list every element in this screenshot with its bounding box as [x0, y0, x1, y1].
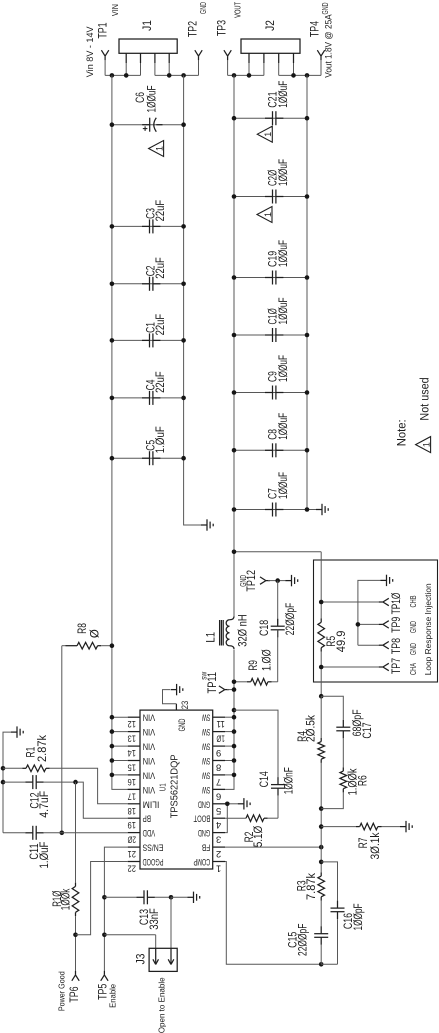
- svg-text:GND: GND: [320, 3, 330, 15]
- svg-text:22uF: 22uF: [155, 314, 167, 336]
- wire output GND rail: [307, 75, 316, 509]
- svg-text:VIN: VIN: [143, 712, 156, 723]
- capacitor C15: [320, 901, 322, 927]
- wire J2 GND side: [279, 74, 321, 76]
- svg-text:R6: R6: [358, 775, 370, 786]
- svg-text:22uF: 22uF: [155, 371, 167, 393]
- capacitor C3: [112, 225, 184, 227]
- wire R8 to VDD: [61, 646, 63, 833]
- svg-text:VIN: VIN: [143, 726, 156, 737]
- svg-text:7.87k: 7.87k: [306, 873, 318, 900]
- svg-text:Vin 8V - 14V: Vin 8V - 14V: [85, 26, 95, 77]
- svg-text:22uF: 22uF: [155, 257, 167, 279]
- capacitor C11: [3, 832, 25, 834]
- svg-text:12: 12: [128, 718, 136, 729]
- test point TP12: [260, 577, 266, 581]
- resistor R6: [342, 767, 344, 771]
- svg-text:U1: U1: [158, 783, 168, 791]
- svg-text:Note:: Note:: [397, 419, 409, 446]
- svg-text:17: 17: [128, 790, 136, 801]
- svg-text:VIN: VIN: [143, 741, 156, 752]
- svg-text:R9: R9: [248, 660, 260, 671]
- capacitor C17 branch: [321, 696, 343, 720]
- ground output rail: [316, 509, 322, 511]
- warning triangle 1 below C21: [257, 126, 272, 142]
- svg-text:BOOT: BOOT: [193, 813, 210, 824]
- wire J1 VIN side: [105, 74, 140, 76]
- svg-text:1: 1: [263, 132, 273, 137]
- capacitor C10: [234, 334, 307, 336]
- svg-text:1ØØuF: 1ØØuF: [146, 86, 158, 113]
- svg-text:2Ø.5k: 2Ø.5k: [306, 715, 318, 742]
- svg-text:49.9: 49.9: [336, 631, 348, 653]
- svg-text:VIN: VIN: [143, 755, 156, 766]
- svg-text:TP2: TP2: [188, 21, 200, 37]
- wire SW node: [213, 650, 234, 790]
- svg-text:Not used: Not used: [419, 377, 431, 420]
- wire VOUT rail: [233, 75, 235, 616]
- svg-text:TP3: TP3: [217, 20, 229, 36]
- svg-text:22ØØpF: 22ØØpF: [285, 603, 297, 635]
- svg-text:GND: GND: [238, 575, 248, 587]
- svg-text:6: 6: [216, 790, 221, 801]
- svg-text:CHA: CHA: [408, 663, 418, 675]
- svg-text:J3: J3: [136, 954, 148, 965]
- svg-text:1ØØuF: 1ØØuF: [278, 472, 290, 499]
- svg-text:1ØØuF: 1ØØuF: [278, 298, 290, 325]
- resistor R5: [320, 619, 322, 623]
- svg-text:R7: R7: [358, 838, 370, 849]
- test point TP3: [224, 50, 228, 56]
- wire loop gnd: [358, 580, 381, 645]
- svg-text:1: 1: [216, 863, 221, 874]
- svg-text:15: 15: [128, 762, 136, 773]
- connector J3: [104, 934, 155, 936]
- svg-text:21: 21: [128, 848, 136, 859]
- capacitor C6: [112, 124, 184, 126]
- svg-text:3Ø.1k: 3Ø.1k: [370, 832, 382, 859]
- capacitor C13: [104, 896, 136, 898]
- svg-text:C18: C18: [259, 620, 271, 636]
- capacitor C20: [234, 196, 307, 198]
- svg-text:TP9: TP9: [391, 617, 403, 633]
- svg-text:BP: BP: [143, 813, 151, 824]
- svg-text:TP1: TP1: [98, 22, 110, 38]
- svg-text:GND: GND: [198, 827, 211, 838]
- test point TP2: [195, 50, 199, 56]
- svg-text:GND: GND: [408, 643, 418, 655]
- wire loop injection feed: [320, 552, 322, 619]
- svg-text:TP6: TP6: [69, 986, 81, 1002]
- test point TP5: [101, 975, 105, 981]
- svg-text:TPS56221DQP: TPS56221DQP: [170, 754, 181, 818]
- svg-text:PGOOD: PGOOD: [142, 856, 163, 867]
- svg-text:COMP: COMP: [194, 856, 211, 867]
- svg-text:GND: GND: [198, 2, 208, 14]
- capacitor C4: [112, 397, 184, 399]
- svg-text:J2: J2: [265, 20, 277, 31]
- resistor R4: [320, 738, 322, 742]
- svg-text:C14: C14: [259, 771, 271, 788]
- warning triangle 1 below C20: [257, 207, 272, 223]
- loop response injection box: [314, 560, 438, 682]
- svg-text:1.ØuF: 1.ØuF: [155, 426, 167, 453]
- svg-text:1ØØuF: 1ØØuF: [278, 159, 290, 186]
- resistor R7: [321, 826, 356, 828]
- svg-text:7: 7: [216, 776, 221, 787]
- svg-text:SW: SW: [202, 726, 210, 737]
- svg-text:ILIM: ILIM: [143, 798, 160, 809]
- svg-text:33nF: 33nF: [149, 908, 161, 930]
- svg-text:VIN: VIN: [110, 4, 120, 16]
- svg-text:23: 23: [180, 701, 190, 710]
- wires U1 VIN pins to rail: [112, 716, 128, 718]
- capacitor C19: [234, 277, 307, 279]
- svg-text:Power Good: Power Good: [56, 971, 66, 1011]
- svg-text:L1: L1: [206, 632, 218, 643]
- wire FB: [225, 846, 321, 848]
- svg-text:Loop Response Injection: Loop Response Injection: [423, 583, 433, 675]
- capacitor C21: [234, 117, 307, 119]
- op-amp U1 TPS56221DQP box: [140, 710, 213, 869]
- test point TP11: [219, 686, 225, 690]
- svg-text:VIN: VIN: [143, 784, 156, 795]
- wire EN/SS: [104, 847, 127, 971]
- svg-text:3: 3: [216, 834, 221, 845]
- svg-text:R1: R1: [26, 747, 38, 758]
- resistor R1: [3, 767, 22, 769]
- svg-text:TP1Ø: TP1Ø: [391, 593, 403, 615]
- svg-text:32Ø nH: 32Ø nH: [237, 614, 249, 646]
- capacitor C8: [234, 449, 307, 451]
- junction dots J1 row: [110, 73, 115, 78]
- svg-text:SW: SW: [202, 712, 210, 723]
- ground C13: [171, 896, 188, 898]
- inductor L1: [229, 617, 234, 620]
- svg-text:13: 13: [128, 733, 136, 744]
- svg-text:TP8: TP8: [391, 638, 403, 654]
- svg-text:2.87k: 2.87k: [37, 735, 49, 762]
- test point TP6: [72, 975, 76, 981]
- svg-text:Vout 1.8V @ 25A: Vout 1.8V @ 25A: [324, 14, 334, 77]
- svg-text:4: 4: [216, 819, 221, 830]
- test point TP9: [358, 623, 379, 625]
- capacitor C18: [277, 581, 279, 625]
- svg-text:Ø: Ø: [89, 629, 101, 638]
- connector J2: [241, 39, 300, 53]
- ground U1 GND pins: [238, 803, 244, 805]
- svg-text:GND: GND: [408, 621, 418, 633]
- wire COMP: [225, 862, 321, 965]
- ground TP12: [278, 580, 286, 582]
- svg-text:1ØØk: 1ØØk: [61, 888, 73, 910]
- svg-text:22: 22: [128, 863, 136, 874]
- resistor R9: [234, 681, 247, 683]
- svg-text:1ØØuF: 1ØØuF: [278, 413, 290, 440]
- svg-text:2: 2: [216, 848, 221, 859]
- svg-text:FB: FB: [202, 842, 210, 853]
- svg-text:16: 16: [128, 776, 136, 787]
- ground input rail: [201, 524, 207, 526]
- svg-text:Enable: Enable: [108, 984, 118, 1008]
- test point TP7: [321, 666, 379, 668]
- svg-text:sw: sw: [199, 671, 209, 680]
- svg-text:TP4: TP4: [310, 20, 322, 37]
- ground left bus: [11, 731, 17, 733]
- capacitor C12: [3, 781, 25, 783]
- capacitor C5: [112, 457, 184, 459]
- ground loop injection: [381, 579, 387, 581]
- wire divider: [319, 694, 324, 699]
- svg-text:9: 9: [216, 747, 221, 758]
- svg-text:14: 14: [128, 747, 136, 758]
- svg-text:SW: SW: [202, 741, 210, 752]
- svg-text:18: 18: [128, 805, 136, 816]
- wire input GND rail: [184, 75, 201, 525]
- svg-text:1Ø: 1Ø: [216, 733, 225, 744]
- svg-text:19: 19: [128, 819, 136, 830]
- svg-text:1ØØuF: 1ØØuF: [278, 81, 290, 108]
- wire U1 GND pins: [225, 803, 238, 805]
- svg-text:1ØØnF: 1ØØnF: [284, 767, 296, 794]
- svg-text:SW: SW: [202, 755, 210, 766]
- svg-text:1: 1: [263, 212, 273, 217]
- wire VIN rail: [112, 75, 140, 789]
- capacitor C9: [234, 392, 307, 394]
- capacitor C2: [112, 283, 184, 285]
- resistor R10: [75, 782, 77, 883]
- svg-text:J1: J1: [142, 20, 154, 31]
- wire left GND bus: [3, 732, 11, 833]
- wire J1 GND side: [155, 74, 199, 76]
- wire J2 VOUT side: [228, 74, 264, 76]
- svg-text:C6: C6: [135, 92, 147, 103]
- svg-text:TP7: TP7: [391, 658, 403, 674]
- warning triangle 1 note: [416, 437, 431, 453]
- svg-text:5.1Ø: 5.1Ø: [253, 826, 265, 848]
- svg-text:SW: SW: [202, 784, 210, 795]
- svg-text:EN/SS: EN/SS: [143, 842, 164, 853]
- junction dots J2 row: [232, 73, 237, 78]
- test point TP10: [321, 601, 379, 603]
- svg-text:1ØØuF: 1ØØuF: [278, 240, 290, 267]
- inductor L1 core bars: [219, 620, 221, 646]
- test point TP8: [358, 644, 379, 646]
- svg-text:CHB: CHB: [408, 595, 418, 607]
- svg-text:1: 1: [421, 442, 431, 447]
- svg-text:1.ØØ: 1.ØØ: [262, 649, 274, 671]
- wires U1 SW pins to SW node: [225, 716, 234, 718]
- warning triangle 1 input: [149, 141, 164, 157]
- svg-text:2Ø: 2Ø: [127, 834, 136, 845]
- svg-text:1.ØuF: 1.ØuF: [39, 842, 51, 869]
- resistor R3: [320, 872, 322, 876]
- svg-text:GND: GND: [177, 718, 187, 731]
- svg-text:SW: SW: [202, 769, 210, 780]
- svg-text:GND: GND: [198, 798, 211, 809]
- svg-text:1ØØuF: 1ØØuF: [278, 355, 290, 382]
- capacitor C1: [112, 339, 184, 341]
- capacitor C14: [234, 710, 278, 777]
- svg-text:22ØØpF: 22ØØpF: [297, 924, 309, 956]
- svg-text:VIN: VIN: [143, 769, 156, 780]
- test point TP1: [101, 50, 105, 56]
- svg-text:22uF: 22uF: [155, 200, 167, 222]
- U1 pin 23 GND pad: [175, 704, 177, 710]
- svg-text:TP11: TP11: [207, 672, 219, 694]
- connector J1: [119, 39, 177, 53]
- svg-text:1: 1: [154, 146, 164, 151]
- svg-text:R8: R8: [77, 623, 89, 634]
- svg-text:Open to Enable: Open to Enable: [157, 977, 167, 1033]
- svg-text:5: 5: [216, 805, 221, 816]
- svg-text:11: 11: [217, 718, 225, 729]
- capacitor C16 branch: [321, 862, 337, 901]
- wire PGOOD: [76, 862, 128, 935]
- ground R7: [400, 826, 406, 828]
- svg-text:4.7uF: 4.7uF: [39, 791, 51, 818]
- resistor R8: [62, 645, 66, 647]
- svg-text:VOUT: VOUT: [232, 2, 242, 18]
- resistor R2: [225, 817, 246, 819]
- test point TP4: [317, 50, 321, 56]
- svg-text:8: 8: [216, 762, 221, 773]
- svg-text:C17: C17: [362, 722, 374, 738]
- svg-text:1ØØpF: 1ØØpF: [353, 904, 365, 931]
- wire VOUT to loop injection: [234, 551, 321, 553]
- capacitor C7: [234, 509, 307, 511]
- svg-text:VDD: VDD: [143, 827, 156, 838]
